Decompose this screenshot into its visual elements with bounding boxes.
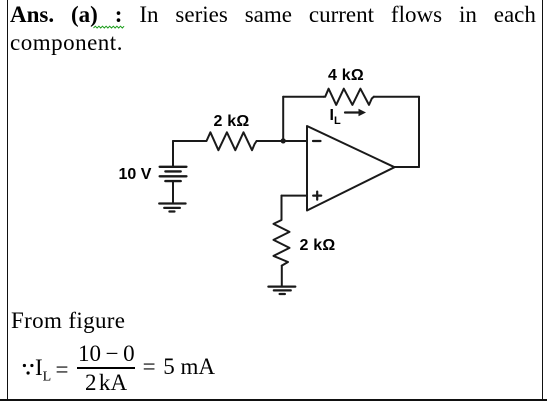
label 2 kOhm (vertical) [300, 237, 336, 255]
voltage source V1 plate long 2 [160, 175, 187, 177]
bottom page border [0, 399, 547, 401]
label 10 V [119, 166, 152, 184]
equation: = 5 mA [143, 354, 215, 380]
left page border [7, 0, 9, 400]
answer paragraph line 2 [10, 30, 123, 56]
output wire [394, 166, 419, 168]
voltage source V1 plate short 2 [165, 180, 180, 182]
wire down to R3 [281, 196, 283, 218]
ground under battery [159, 202, 185, 204]
resistor R3 2 kOhm (to ground, vertical) [274, 218, 290, 266]
answer paragraph line 1 (justified) [10, 2, 536, 29]
equation: I_L [35, 355, 51, 386]
equation: numerator 10 - 0 [78, 341, 135, 367]
non-inverting input wire [282, 195, 308, 197]
voltage source V1 plate long 1 [160, 166, 187, 168]
green squiggly underline under (a) [93, 25, 126, 29]
equation: fraction bar [77, 367, 136, 369]
current arrow IL [345, 111, 360, 113]
resistor R2 4 kOhm (feedback, horizontal) [324, 89, 374, 105]
ground under R3 [268, 286, 295, 288]
wire node to R2 [283, 96, 324, 98]
resistor R1 2 kOhm (series, horizontal) [205, 132, 257, 150]
wire R1 to inverting node [257, 140, 307, 142]
voltage source V1 plate short 1 [165, 170, 180, 172]
feedback wire up from node A [282, 97, 284, 141]
voltage source V1 bottom lead wire [172, 181, 174, 203]
op-amp plus sign [313, 195, 321, 197]
wire battery to R1 [173, 140, 205, 142]
node A junction dot [281, 138, 286, 143]
feedback right vertical wire [418, 97, 420, 167]
wire R3 to ground [281, 266, 283, 286]
label 2 kOhm (series) [214, 113, 250, 131]
label 4 kOhm [328, 67, 364, 85]
voltage source V1 10 V : top lead wire [172, 141, 174, 166]
label IL [330, 107, 341, 127]
right page border [542, 0, 544, 400]
op-amp minus sign [313, 140, 321, 142]
equation: because symbol (three dots) [22, 363, 35, 375]
equation: denominator 2 kA [85, 370, 127, 396]
wire R2 to right vertical [374, 96, 419, 98]
equation: first equals [56, 357, 69, 383]
op-amp U1 triangle [307, 126, 395, 211]
From figure [11, 308, 125, 334]
